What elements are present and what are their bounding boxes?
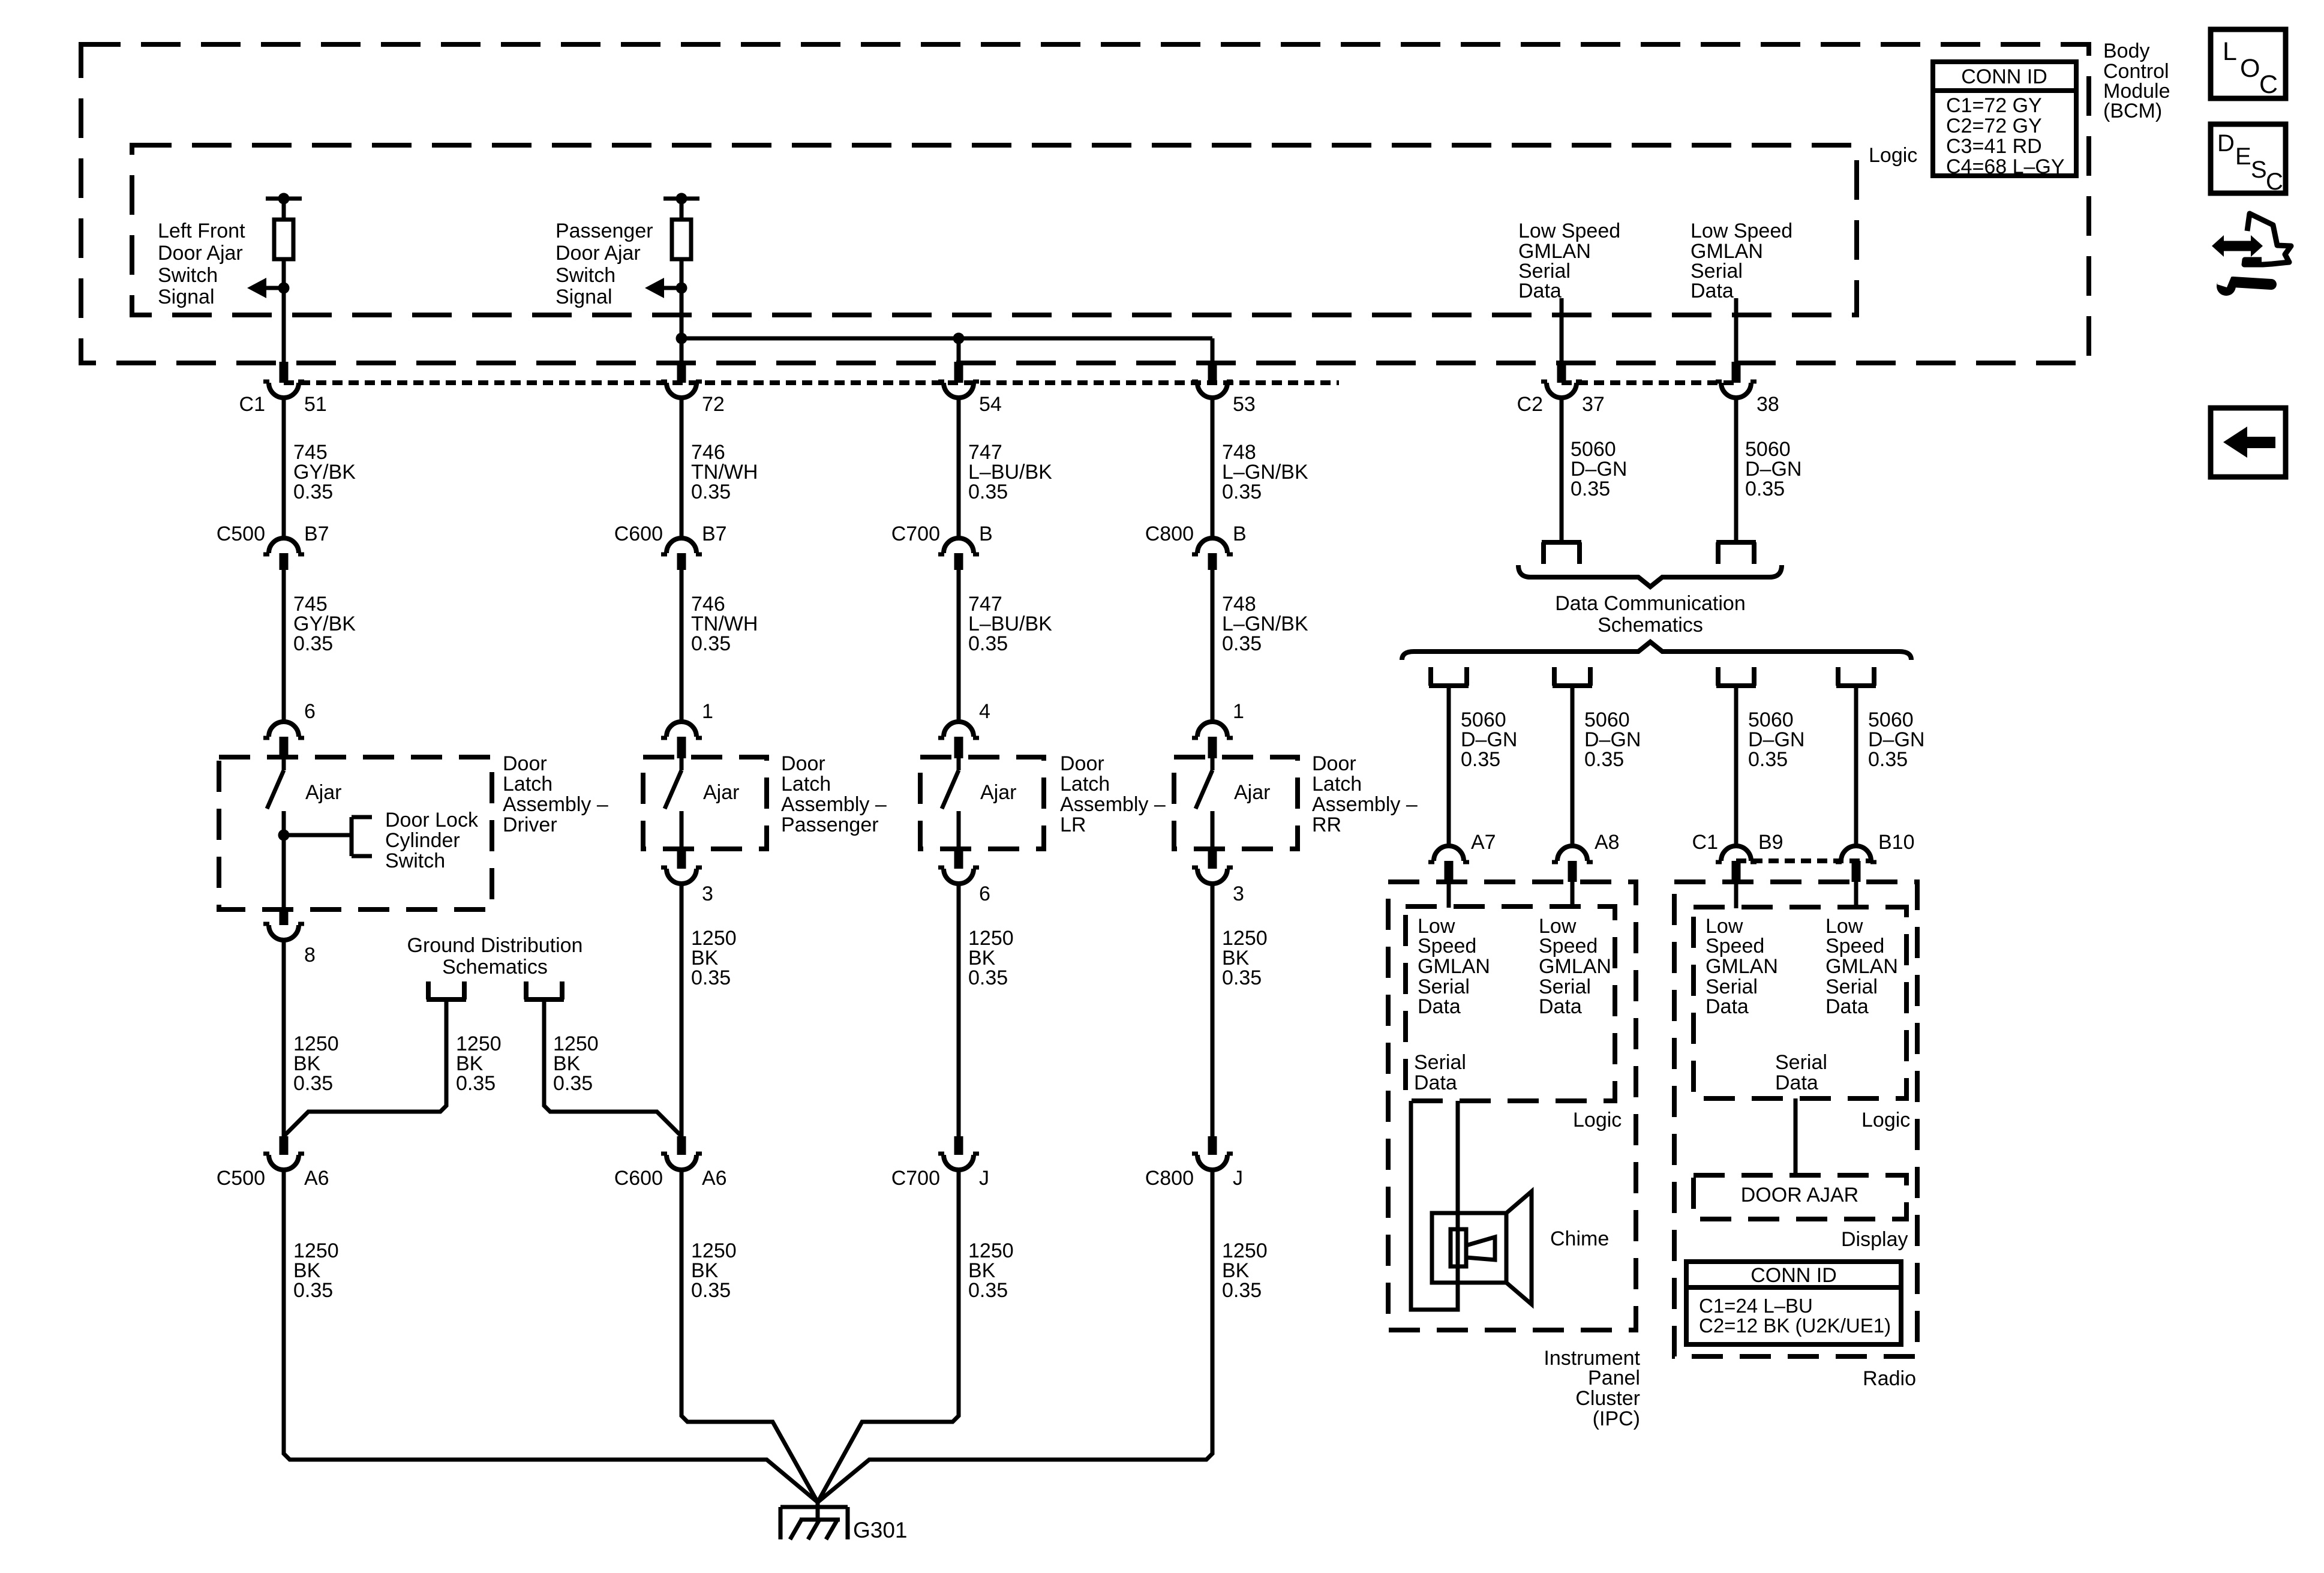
- off-page stub serial data to B9: [1716, 667, 1756, 686]
- svg-text:0.35: 0.35: [968, 632, 1008, 655]
- off-page stub ground distribution right: [524, 981, 564, 999]
- off-page stub serial data 38: [1716, 542, 1756, 564]
- svg-text:C1: C1: [239, 393, 265, 416]
- svg-text:Speed: Speed: [1418, 935, 1476, 957]
- svg-text:Display: Display: [1841, 1228, 1908, 1251]
- svg-text:D: D: [2217, 130, 2235, 157]
- wire driver latch pin 8 to C500 A6: [282, 940, 286, 1136]
- wire B9 into Radio logic: [1734, 882, 1739, 908]
- wire B10 into Radio logic: [1854, 882, 1858, 908]
- svg-text:B7: B7: [304, 523, 329, 545]
- wire ground run passenger: [681, 1169, 818, 1502]
- svg-text:1: 1: [702, 700, 713, 723]
- svg-text:Door: Door: [1060, 752, 1104, 775]
- svg-text:0.35: 0.35: [1222, 966, 1262, 989]
- connector dashed line C2: [1562, 380, 1736, 385]
- svg-text:0.35: 0.35: [691, 1279, 731, 1302]
- CONN ID table (BCM): [1933, 62, 2076, 176]
- svg-text:0.35: 0.35: [968, 966, 1008, 989]
- svg-text:3: 3: [702, 882, 713, 905]
- svg-text:G301: G301: [853, 1518, 908, 1542]
- svg-text:1: 1: [1233, 700, 1244, 723]
- svg-text:C700: C700: [891, 1167, 940, 1190]
- svg-text:C600: C600: [614, 523, 663, 545]
- svg-text:A8: A8: [1595, 831, 1620, 854]
- svg-text:Passenger: Passenger: [781, 813, 879, 836]
- inline connector C600 pin A6: [677, 1136, 686, 1155]
- svg-text:54: 54: [979, 393, 1002, 416]
- svg-text:0.35: 0.35: [293, 1072, 333, 1095]
- connector dashed line C1: [284, 380, 1339, 385]
- svg-text:C2: C2: [1517, 393, 1543, 416]
- svg-text:Data: Data: [1825, 995, 1869, 1018]
- svg-text:Speed: Speed: [1706, 935, 1764, 957]
- svg-text:Assembly –: Assembly –: [781, 793, 887, 816]
- svg-text:0.35: 0.35: [293, 1279, 333, 1302]
- inline connector C800 pin B: [1197, 538, 1227, 553]
- svg-text:C1=24 L–BU: C1=24 L–BU: [1699, 1295, 1813, 1317]
- node T-bar feed (passenger door ajar switch signal): [663, 197, 699, 201]
- wire circuit 746 upper segment: [680, 398, 684, 539]
- svg-text:Latch: Latch: [503, 773, 553, 795]
- svg-text:Data: Data: [1539, 995, 1582, 1018]
- svg-text:Data: Data: [1691, 280, 1734, 302]
- svg-text:B7: B7: [702, 523, 727, 545]
- wire latch output to connector (C800): [1211, 884, 1215, 1136]
- svg-text:Switch: Switch: [385, 849, 445, 872]
- icon wrench with double arrow: [2222, 241, 2253, 251]
- svg-text:C600: C600: [614, 1167, 663, 1190]
- connector door latch RR pin 3: [1208, 848, 1217, 869]
- svg-text:Speed: Speed: [1539, 935, 1598, 957]
- connector door latch Passenger pin 1: [666, 722, 696, 737]
- wire latch output to connector (C600): [680, 884, 684, 1136]
- svg-text:0.35: 0.35: [1748, 748, 1788, 771]
- wire serial data to B9: [1734, 686, 1739, 847]
- svg-text:Data: Data: [1706, 995, 1749, 1018]
- off-page stub serial data to A8: [1553, 667, 1592, 686]
- svg-text:Ground Distribution: Ground Distribution: [407, 934, 583, 957]
- svg-text:E: E: [2235, 143, 2251, 170]
- connector pin A7: [1434, 846, 1464, 861]
- logic box inside Radio: [1694, 907, 1906, 1098]
- connector C1 pin 54: [954, 362, 963, 383]
- svg-text:C500: C500: [217, 1167, 265, 1190]
- wire pin 54 stub: [957, 338, 961, 362]
- svg-text:C4=68 L–GY: C4=68 L–GY: [1946, 155, 2065, 178]
- svg-text:RR: RR: [1312, 813, 1341, 836]
- svg-text:0.35: 0.35: [1584, 748, 1624, 771]
- svg-text:A6: A6: [702, 1167, 727, 1190]
- component box door latch assembly LR: [920, 757, 1044, 849]
- svg-text:Serial: Serial: [1414, 1051, 1466, 1074]
- svg-text:0.35: 0.35: [1222, 481, 1262, 503]
- wire bus to pins 54 and 53: [681, 337, 1212, 341]
- svg-text:Ajar: Ajar: [305, 781, 341, 804]
- wire A7 into IPC logic: [1447, 882, 1451, 908]
- component box door latch assembly Driver: [219, 757, 492, 909]
- svg-text:Data: Data: [1518, 280, 1562, 302]
- wire serial data to B10: [1854, 686, 1858, 847]
- CONN ID table (Radio): [1686, 1262, 1901, 1344]
- svg-text:Data: Data: [1775, 1071, 1818, 1094]
- svg-text:0.35: 0.35: [293, 632, 333, 655]
- connector door latch LR pin 6: [954, 848, 963, 869]
- wire ground run RR: [818, 1169, 1212, 1502]
- svg-text:Door: Door: [503, 752, 547, 775]
- svg-text:0.35: 0.35: [1222, 632, 1262, 655]
- display box DOOR AJAR: [1694, 1175, 1906, 1219]
- wire circuit 747 upper segment: [957, 398, 961, 539]
- svg-text:C: C: [2259, 70, 2278, 99]
- svg-text:0.35: 0.35: [691, 632, 731, 655]
- svg-text:GMLAN: GMLAN: [1825, 955, 1898, 978]
- connector dashed line radio C1: [1736, 858, 1872, 863]
- switch ajar contact (LR): [957, 757, 961, 770]
- svg-text:GMLAN: GMLAN: [1539, 955, 1611, 978]
- connector pin A8: [1557, 846, 1587, 861]
- svg-text:Body: Body: [2103, 40, 2150, 62]
- wire circuit 748 lower segment: [1211, 570, 1215, 722]
- svg-text:Assembly –: Assembly –: [1312, 793, 1418, 816]
- connector door latch Passenger pin 3: [677, 848, 686, 869]
- svg-text:6: 6: [304, 700, 316, 723]
- svg-text:Ajar: Ajar: [980, 781, 1016, 804]
- svg-text:6: 6: [979, 882, 990, 905]
- svg-text:0.35: 0.35: [1571, 478, 1610, 500]
- wire BCM pin 37 upper: [1560, 298, 1564, 362]
- chime speaker symbol: [1432, 1213, 1506, 1283]
- svg-text:Data: Data: [1418, 995, 1461, 1018]
- svg-text:(IPC): (IPC): [1593, 1407, 1640, 1430]
- svg-text:Passenger: Passenger: [556, 220, 653, 242]
- svg-text:(BCM): (BCM): [2103, 100, 2162, 122]
- svg-text:Latch: Latch: [1312, 773, 1362, 795]
- connector door latch LR pin 4: [944, 722, 974, 737]
- connector C1 pin 72: [677, 362, 686, 383]
- resistor left front door ajar switch signal pull-up: [282, 199, 286, 220]
- svg-text:Door Ajar: Door Ajar: [556, 242, 641, 265]
- connector C2 pin 37: [1557, 362, 1566, 383]
- svg-text:Left Front: Left Front: [158, 220, 245, 242]
- svg-text:Door Lock: Door Lock: [385, 809, 479, 831]
- svg-text:GMLAN: GMLAN: [1706, 955, 1778, 978]
- wire A8 into IPC logic: [1571, 882, 1575, 908]
- connector C1 pin 51: [280, 362, 289, 383]
- svg-text:C2=12 BK (U2K/UE1): C2=12 BK (U2K/UE1): [1699, 1314, 1891, 1337]
- node junction to door lock cylinder switch: [278, 830, 290, 841]
- svg-text:A6: A6: [304, 1167, 329, 1190]
- svg-text:B: B: [1233, 523, 1247, 545]
- svg-text:Assembly –: Assembly –: [503, 793, 608, 816]
- svg-text:S: S: [2251, 157, 2267, 183]
- svg-text:72: 72: [702, 393, 725, 416]
- resistor passenger door ajar switch signal pull-up: [680, 199, 684, 220]
- svg-text:CONN ID: CONN ID: [1750, 1264, 1837, 1287]
- svg-text:Serial: Serial: [1775, 1051, 1827, 1074]
- svg-text:0.35: 0.35: [293, 481, 333, 503]
- icon DESC box: [2211, 124, 2286, 193]
- svg-text:Ajar: Ajar: [1234, 781, 1270, 804]
- svg-text:3: 3: [1233, 882, 1244, 905]
- module box: Body Control Module (BCM): [81, 44, 2089, 363]
- connector door latch RR pin 1: [1197, 722, 1227, 737]
- svg-text:Driver: Driver: [503, 813, 557, 836]
- svg-text:B: B: [979, 523, 993, 545]
- svg-text:J: J: [979, 1167, 989, 1190]
- svg-text:O: O: [2240, 54, 2260, 83]
- inline connector C700 pin B: [944, 538, 974, 553]
- wire circuit 748 upper segment: [1211, 398, 1215, 539]
- svg-text:Door: Door: [1312, 752, 1356, 775]
- svg-text:C700: C700: [891, 523, 940, 545]
- inline connector C600 pin B7: [666, 538, 696, 553]
- wire 5060 D-GN (pin 38): [1734, 398, 1739, 541]
- wire ground run LR: [818, 1169, 959, 1502]
- svg-text:Door Ajar: Door Ajar: [158, 242, 243, 265]
- svg-text:A7: A7: [1471, 831, 1496, 854]
- icon LOC box: [2211, 29, 2286, 98]
- wire ground stub left to driver circuit: [284, 999, 446, 1136]
- signal arrow (passenger door ajar switch signal): [676, 283, 687, 294]
- component box door latch assembly RR: [1174, 757, 1298, 849]
- svg-text:0.35: 0.35: [691, 481, 731, 503]
- door lock cylinder switch contact: [350, 817, 354, 856]
- wire serial data to A7: [1447, 686, 1451, 847]
- inline connector C800 pin J: [1208, 1136, 1217, 1155]
- svg-text:C: C: [2266, 169, 2283, 195]
- svg-text:Signal: Signal: [158, 286, 215, 308]
- svg-text:C3=41 RD: C3=41 RD: [1946, 135, 2042, 158]
- svg-text:J: J: [1233, 1167, 1243, 1190]
- svg-text:Schematics: Schematics: [1598, 614, 1703, 637]
- wire chime loop: [1411, 1101, 1458, 1310]
- svg-text:Data: Data: [1414, 1071, 1457, 1094]
- svg-text:0.35: 0.35: [968, 481, 1008, 503]
- svg-text:8: 8: [304, 944, 316, 966]
- wire 5060 D-GN (pin 37): [1560, 398, 1564, 541]
- off-page stub serial data to A7: [1429, 667, 1469, 686]
- svg-text:Switch: Switch: [158, 264, 218, 287]
- module box Radio: [1674, 882, 1917, 1356]
- svg-text:C1=72 GY: C1=72 GY: [1946, 94, 2042, 117]
- svg-text:Radio: Radio: [1863, 1367, 1916, 1390]
- svg-text:4: 4: [979, 700, 990, 723]
- logic box inside BCM: [132, 145, 1857, 315]
- svg-text:0.35: 0.35: [691, 966, 731, 989]
- inline connector C500 pin A6: [280, 1136, 289, 1155]
- svg-text:Switch: Switch: [556, 264, 615, 287]
- brace to Data Communication Schematics: [1518, 565, 1782, 587]
- connector pin B10: [1841, 846, 1871, 861]
- svg-text:Latch: Latch: [1060, 773, 1110, 795]
- inline connector C700 pin J: [954, 1136, 963, 1155]
- svg-text:Assembly –: Assembly –: [1060, 793, 1166, 816]
- svg-text:Schematics: Schematics: [442, 956, 548, 978]
- svg-text:LR: LR: [1060, 813, 1086, 836]
- connector C2 pin 38: [1732, 362, 1741, 383]
- svg-text:B9: B9: [1758, 831, 1783, 854]
- wire circuit 745 upper segment: [282, 398, 286, 539]
- svg-text:Ajar: Ajar: [703, 781, 739, 804]
- svg-text:Logic: Logic: [1861, 1109, 1910, 1131]
- svg-text:Latch: Latch: [781, 773, 831, 795]
- svg-text:Data Communication: Data Communication: [1555, 592, 1745, 615]
- wire serial data to A8: [1571, 686, 1575, 847]
- switch ajar contact (Passenger): [680, 757, 684, 770]
- ground G301 symbol: [816, 1502, 820, 1520]
- svg-text:C800: C800: [1145, 1167, 1194, 1190]
- svg-text:C1: C1: [1692, 831, 1718, 854]
- svg-text:Logic: Logic: [1869, 144, 1917, 167]
- wire resistor to connector (passenger): [680, 259, 684, 363]
- wire latch output to connector (C700): [957, 884, 961, 1136]
- node T-bar feed (left front door ajar switch signal): [266, 197, 302, 201]
- svg-text:0.35: 0.35: [968, 1279, 1008, 1302]
- connector door latch Driver pin 6: [269, 722, 299, 737]
- component box door latch assembly Passenger: [643, 757, 767, 849]
- svg-text:DOOR AJAR: DOOR AJAR: [1741, 1184, 1858, 1206]
- svg-text:Low Speed: Low Speed: [1518, 220, 1620, 242]
- svg-text:0.35: 0.35: [1222, 1279, 1262, 1302]
- brace from Data Communication Schematics: [1402, 642, 1911, 660]
- connector C1 pin 53: [1208, 362, 1217, 383]
- wire pin 53 stub: [1211, 338, 1215, 362]
- inline connector C500 pin B7: [269, 538, 299, 553]
- svg-text:0.35: 0.35: [553, 1072, 593, 1095]
- switch ajar contact (RR): [1211, 757, 1215, 770]
- svg-text:0.35: 0.35: [1745, 478, 1785, 500]
- svg-text:Cluster: Cluster: [1575, 1387, 1640, 1410]
- off-page stub ground distribution left: [427, 981, 466, 999]
- svg-text:Chime: Chime: [1550, 1227, 1609, 1250]
- wire serial data to display: [1794, 1098, 1798, 1175]
- svg-text:0.35: 0.35: [1461, 748, 1500, 771]
- logic box inside IPC: [1406, 906, 1615, 1101]
- wire ground run driver: [284, 1169, 818, 1502]
- off-page stub serial data 37: [1542, 542, 1581, 564]
- wire resistor to connector (left front): [282, 259, 286, 363]
- switch ajar contact (Driver): [282, 757, 286, 770]
- svg-text:C2=72 GY: C2=72 GY: [1946, 115, 2042, 137]
- icon back arrow box: [2211, 408, 2286, 477]
- connector door latch Driver pin 8: [280, 908, 289, 925]
- svg-text:CONN ID: CONN ID: [1961, 65, 2047, 88]
- wire circuit 747 lower segment: [957, 570, 961, 722]
- svg-text:C500: C500: [217, 523, 265, 545]
- wire BCM pin 38 upper: [1734, 298, 1739, 362]
- svg-text:38: 38: [1756, 393, 1779, 416]
- wire circuit 745 lower segment: [282, 570, 286, 722]
- svg-text:B10: B10: [1878, 831, 1915, 854]
- svg-text:Low Speed: Low Speed: [1691, 220, 1792, 242]
- svg-text:GMLAN: GMLAN: [1418, 955, 1490, 978]
- svg-text:0.35: 0.35: [456, 1072, 496, 1095]
- svg-text:Speed: Speed: [1825, 935, 1884, 957]
- svg-text:53: 53: [1233, 393, 1256, 416]
- off-page stub serial data to B10: [1836, 667, 1876, 686]
- svg-text:Door: Door: [781, 752, 825, 775]
- svg-text:C800: C800: [1145, 523, 1194, 545]
- wire circuit 746 lower segment: [680, 570, 684, 722]
- module box Instrument Panel Cluster (IPC): [1388, 882, 1636, 1330]
- svg-text:Logic: Logic: [1573, 1109, 1622, 1131]
- svg-text:0.35: 0.35: [1868, 748, 1908, 771]
- wire ground stub right to passenger circuit: [544, 999, 681, 1136]
- svg-text:L: L: [2223, 37, 2237, 66]
- svg-text:Signal: Signal: [556, 286, 612, 308]
- svg-text:51: 51: [304, 393, 327, 416]
- svg-text:37: 37: [1582, 393, 1605, 416]
- svg-text:Panel: Panel: [1588, 1367, 1640, 1389]
- connector pin B9: [1721, 846, 1751, 861]
- signal arrow (left front door ajar switch signal): [278, 283, 290, 294]
- svg-text:Cylinder: Cylinder: [385, 829, 460, 852]
